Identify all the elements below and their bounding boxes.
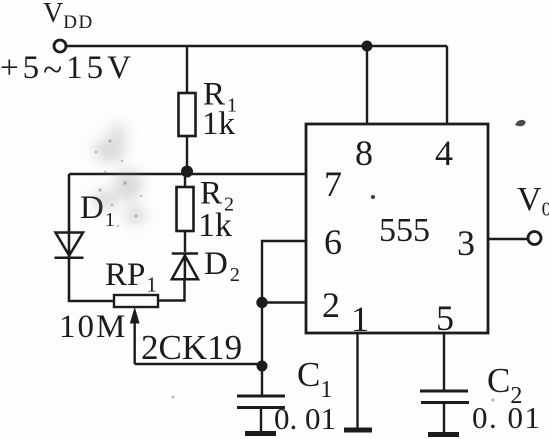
svg-text:8: 8 [355, 133, 373, 173]
wire pin 6 [262, 241, 306, 395]
diode D2 [172, 253, 198, 280]
svg-text:555: 555 [379, 212, 430, 249]
wire D1 to bottom corner [69, 258, 114, 301]
svg-text:0. 01: 0. 01 [472, 400, 542, 435]
IC 555 box U1 [306, 124, 488, 333]
svg-text:1: 1 [351, 299, 369, 339]
wire left branch down [68, 174, 71, 234]
resistor R2 [177, 187, 194, 231]
wire mid rail to pin7 [69, 173, 306, 176]
wire pin 2 [262, 301, 306, 303]
wire wiper to C1 node [135, 363, 262, 365]
wire pin 3 [488, 238, 529, 240]
svg-text:1k: 1k [198, 207, 232, 244]
resistor R1 [179, 93, 196, 136]
wire R1 bottom [186, 136, 188, 174]
smudge noise [93, 125, 145, 224]
ground C2 [428, 432, 459, 437]
svg-text:2: 2 [322, 285, 340, 325]
node B mid junction [181, 166, 193, 178]
svg-text:4: 4 [435, 133, 453, 173]
wire top rail [66, 45, 447, 48]
wire pin 1 [356, 333, 358, 429]
node pin2 junction [256, 297, 267, 308]
svg-text:3: 3 [457, 223, 475, 263]
svg-text:7: 7 [324, 164, 342, 204]
terminal V0 [528, 232, 541, 245]
svg-text:5: 5 [436, 298, 454, 338]
terminal VDD [54, 40, 66, 52]
node wiper junction [257, 361, 268, 372]
svg-text:10M: 10M [59, 309, 127, 345]
svg-text:0. 01: 0. 01 [274, 401, 336, 436]
capacitor C1 [237, 396, 285, 432]
wire R2 top [184, 174, 186, 187]
ground pin1 [344, 428, 372, 433]
wire RP1 right to D2 [158, 279, 185, 301]
wire R1 top [186, 46, 188, 94]
node A top junction [362, 41, 373, 52]
ground C1 [245, 431, 276, 436]
wire pin 8 [366, 46, 368, 124]
wire pin 5 [443, 333, 445, 390]
svg-text:+5~15V: +5~15V [0, 50, 135, 89]
diode D1 [55, 232, 84, 258]
wire pin 4 [446, 46, 448, 124]
RP1 wiper arrow [131, 309, 139, 365]
potentiometer RP1 [114, 295, 158, 307]
wire D2 to R2 [184, 231, 186, 252]
svg-text:1k: 1k [202, 106, 236, 142]
svg-text:6: 6 [324, 222, 342, 262]
capacitor C2 [420, 391, 469, 432]
svg-text:2CK19: 2CK19 [141, 328, 242, 367]
